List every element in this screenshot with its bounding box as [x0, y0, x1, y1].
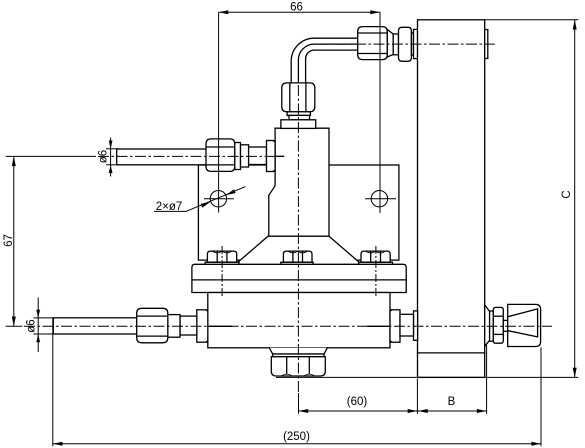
upper tube — [117, 149, 210, 165]
extension B right — [486, 345, 488, 414]
dimension phi6 top line — [110, 138, 112, 177]
dimension 250 line — [53, 443, 541, 445]
right port flange — [390, 310, 400, 342]
extension 66 left — [218, 12, 220, 212]
inlet union nut — [399, 27, 412, 61]
vertical fitting washer1 — [287, 112, 310, 116]
elbow union nut — [358, 27, 388, 60]
svg-text:67: 67 — [3, 234, 15, 247]
svg-text:2×ø7: 2×ø7 — [156, 201, 183, 213]
flange split line — [192, 279, 406, 281]
nut bolt3 — [361, 251, 390, 262]
upper tube port flange — [267, 141, 276, 172]
svg-text:ø6: ø6 — [98, 150, 110, 163]
outlet neck — [269, 348, 327, 354]
hole right crosshair — [365, 198, 396, 200]
upper tube taper — [235, 143, 241, 170]
centerline bolt1 — [221, 246, 223, 297]
flowmeter top right tab — [485, 30, 488, 59]
extension 67 bottom — [6, 325, 23, 327]
elbow collar — [393, 34, 398, 55]
svg-text:66: 66 — [290, 2, 303, 14]
lower tube — [53, 318, 140, 334]
elbow pipe inner — [306, 50, 359, 83]
lower tube nut — [137, 308, 168, 343]
extension 66 right — [379, 12, 381, 213]
flowmeter lower section line — [418, 352, 485, 354]
nut bolt1 — [207, 251, 236, 262]
centerline elbow horizontal — [318, 43, 495, 45]
valve knob hex — [493, 307, 503, 343]
flowmeter body — [418, 20, 485, 378]
outlet ring — [273, 354, 324, 357]
hole left circle — [210, 191, 226, 207]
centerline upper tube — [98, 155, 284, 157]
extension 250 left — [52, 318, 54, 446]
hole right circle — [371, 191, 387, 207]
elbow taper — [387, 30, 393, 58]
dimension phi6 bottom line — [37, 298, 39, 353]
bonnet flange — [192, 264, 406, 292]
washer bolt1 — [205, 262, 239, 264]
dimension C line — [574, 20, 576, 378]
vertical fitting nut — [282, 83, 315, 112]
right bore line — [368, 325, 390, 327]
svg-text:ø6: ø6 — [26, 319, 38, 332]
elbow pipe center — [298, 44, 358, 83]
valve knob strip — [490, 311, 494, 341]
svg-text:B: B — [448, 396, 456, 408]
washer bolt3 — [359, 262, 393, 264]
elbow pipe outer — [291, 38, 358, 83]
left port taper — [168, 315, 180, 338]
dimension 67 line — [13, 156, 15, 326]
svg-text:(250): (250) — [283, 431, 310, 443]
extension 250 right — [540, 348, 542, 447]
upper tube collar — [241, 145, 249, 167]
dimension 66 line — [219, 11, 380, 13]
extension 60 left — [298, 393, 300, 414]
leader 2x7 — [186, 187, 246, 212]
extension C top — [485, 19, 579, 21]
svg-text:(60): (60) — [347, 396, 368, 408]
extension 67 top — [6, 155, 96, 157]
inlet spacer — [411, 33, 413, 55]
centerline main vertical — [297, 85, 299, 393]
nut bolt2 — [283, 251, 312, 262]
mounting plate — [198, 165, 399, 260]
flowmeter inlet tab — [414, 29, 418, 58]
hole left crosshair — [204, 198, 234, 200]
bell flare — [236, 236, 362, 264]
regulator upper block — [269, 128, 329, 236]
washer bolt2 — [281, 262, 313, 264]
right port shaft — [400, 314, 414, 336]
upper tube shaft — [249, 147, 267, 165]
valve knob — [508, 304, 541, 346]
extension C bottom — [276, 376, 578, 378]
left port shaft — [180, 316, 197, 335]
extension 60 right — [416, 378, 418, 414]
lower valve body — [208, 293, 390, 348]
left bore line — [208, 325, 232, 327]
left port flange — [197, 310, 208, 342]
dimension 60 B line — [299, 410, 487, 412]
centerline lower ports — [24, 325, 552, 327]
vertical fitting collar — [281, 120, 316, 129]
valve knob stem — [503, 320, 507, 331]
vertical fitting washer2 — [289, 115, 310, 119]
centerline bolt3 — [375, 246, 377, 297]
inlet bore line — [275, 155, 284, 157]
valve knob boss — [485, 305, 490, 346]
flowmeter bottom left tab — [414, 311, 418, 340]
svg-text:C: C — [561, 190, 573, 198]
outlet nut — [271, 357, 325, 376]
upper tube nut — [206, 139, 235, 172]
